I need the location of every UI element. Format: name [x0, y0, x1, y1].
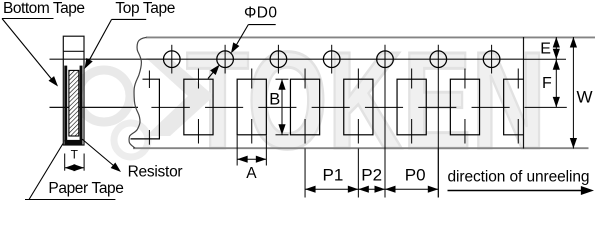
- P1 P2 P0 dimensions: [305, 149, 438, 198]
- svg-text:ΦD0: ΦD0: [244, 5, 277, 22]
- svg-text:Bottom Tape: Bottom Tape: [3, 0, 85, 17]
- pocket 1 (torn): [131, 79, 160, 139]
- tape top edge: [146, 36, 595, 38]
- sprocket centerline: [50, 58, 524, 60]
- T dimension: [65, 154, 84, 171]
- sprocket hole 7: [483, 51, 500, 68]
- sprocket hole 2: [217, 51, 234, 68]
- hole 5 center tick: [384, 45, 386, 198]
- tape right edge: [523, 37, 525, 149]
- sprocket hole 5: [377, 51, 394, 68]
- tape bottom edge: [133, 147, 589, 149]
- hole 7 center tick: [491, 45, 493, 74]
- side view: paper tape cross-section outer rect: [63, 36, 84, 145]
- pocket 5: [344, 79, 373, 135]
- A dimension: [237, 136, 266, 166]
- side view: bottom tape (left black bar): [64, 66, 67, 142]
- svg-text:Resistor: Resistor: [128, 164, 183, 181]
- pockets: [131, 79, 524, 139]
- svg-text:F: F: [542, 75, 552, 92]
- sprocket hole 1: [164, 51, 181, 68]
- sprocket hole 4: [323, 51, 340, 68]
- svg-text:A: A: [246, 165, 257, 182]
- sprocket holes: [164, 51, 500, 68]
- pocket center ticks vertical: [149, 69, 518, 145]
- hole 1 center tick: [171, 45, 173, 74]
- pocket center ticks horizontal: [151, 106, 509, 108]
- hole 6 center tick: [437, 45, 439, 198]
- hole 3 center tick: [277, 45, 279, 74]
- sprocket hole 6: [430, 51, 447, 68]
- pocket 6: [397, 79, 426, 135]
- pocket 7: [450, 79, 479, 135]
- svg-text:P2: P2: [361, 165, 382, 184]
- B dimension: [276, 79, 289, 135]
- hole 2 center tick: [224, 45, 226, 74]
- sprocket hole ticks: [172, 45, 492, 198]
- phi D0 second arrow: [208, 67, 218, 79]
- svg-text:Top Tape: Top Tape: [115, 0, 175, 17]
- svg-text:E: E: [540, 41, 551, 58]
- svg-text:P1: P1: [323, 165, 344, 184]
- pocket 4: [290, 79, 319, 135]
- side view: cavity bottom black cap: [64, 140, 82, 145]
- pocket centerline left extension: [50, 106, 139, 108]
- watermark TOKEN logo: [78, 24, 546, 178]
- E F W dimensions: [524, 37, 574, 149]
- svg-text:Paper Tape: Paper Tape: [48, 180, 124, 197]
- pocket 2: [184, 79, 213, 135]
- sprocket hole 3: [270, 51, 287, 68]
- hole 4 center tick: [331, 45, 333, 74]
- svg-text:W: W: [577, 88, 593, 107]
- svg-text:T: T: [71, 148, 79, 162]
- pocket 8 (cut at tape edge): [504, 79, 524, 135]
- svg-text:P0: P0: [405, 165, 426, 184]
- side view: top tape (right black bar): [80, 66, 83, 142]
- torn left edge: [129, 37, 146, 148]
- pocket 3: [237, 79, 266, 135]
- side view: resistor hatched body: [69, 70, 79, 136]
- svg-text:B: B: [269, 90, 280, 108]
- svg-text:direction of unreeling: direction of unreeling: [448, 169, 590, 186]
